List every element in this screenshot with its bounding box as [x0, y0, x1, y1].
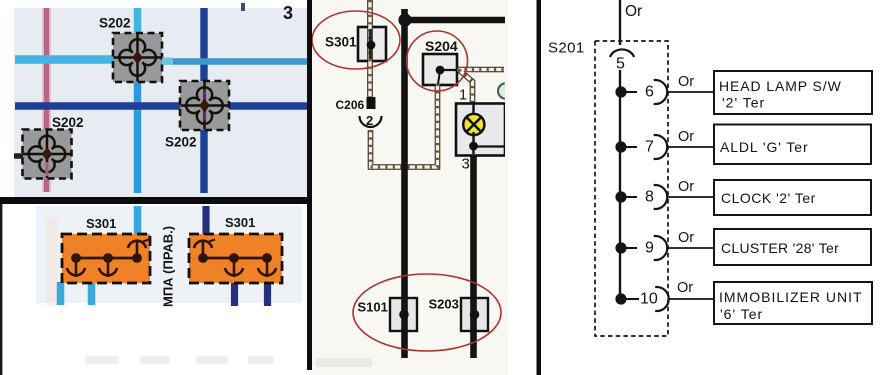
striped wire S204 to lamp and right: [457, 70, 504, 105]
S101 node dot: [399, 310, 409, 320]
faint scan ghost marks: [60, 310, 274, 364]
scan speckle column: [47, 218, 57, 306]
wire cyan stub bottom 1: [57, 282, 65, 305]
lamp unit box: [456, 104, 505, 156]
svg-text:S204: S204: [425, 38, 458, 54]
node 7: [615, 129, 714, 159]
splice S202 lower-left wire stub: [14, 153, 23, 159]
wire navy stub bottom 1: [231, 282, 238, 306]
wire navy stub bottom 2: [264, 282, 271, 306]
wire navy vertical: [200, 8, 207, 193]
splice S202 lower-left: [23, 130, 72, 179]
svg-text:S202: S202: [99, 16, 131, 31]
junction node: [398, 13, 411, 26]
S201 dashed box: [595, 41, 668, 336]
striped wire C206 to S204: [371, 74, 440, 167]
node 10: [615, 280, 714, 311]
node 9: [615, 230, 714, 260]
CLUSTER box: [714, 229, 871, 265]
green circle symbol (clipped): [498, 83, 514, 99]
splice S202 right: [180, 81, 229, 130]
IMMOBILIZER box: [714, 282, 872, 324]
svg-text:S203: S203: [429, 297, 459, 312]
svg-text:Or: Or: [677, 280, 693, 296]
wire blue horizontal right segment: [158, 58, 308, 65]
svg-text:Or: Or: [678, 74, 694, 90]
wire navy horizontal: [15, 102, 308, 110]
HEAD LAMP box: [714, 71, 872, 114]
svg-text:МПА (ПРАВ.): МПА (ПРАВ.): [161, 226, 176, 307]
svg-text:S301: S301: [86, 216, 116, 231]
ALDL box: [714, 125, 871, 165]
red ellipse around S101 S203: [353, 274, 501, 351]
svg-text:S301: S301: [225, 215, 255, 230]
splice S203 box: [461, 298, 488, 331]
wire pink vertical: [42, 8, 51, 192]
separator line between left panels: [0, 197, 312, 204]
middle panel right border / right panel left border: [537, 0, 542, 375]
lamp internal wire bottom + junction: [469, 132, 505, 154]
wire black vertical 1: [401, 9, 408, 358]
striped wire top through S301 to C206: [367, 0, 373, 97]
lamp internal wire top: [472, 104, 474, 117]
splice S301 right (orange): [189, 234, 282, 283]
lamp symbol: [463, 114, 484, 135]
CLOCK box: [714, 180, 871, 215]
svg-text:3: 3: [462, 156, 470, 173]
svg-text:S101: S101: [358, 300, 388, 315]
wire top vertical (to S201): [619, 0, 621, 45]
splice S202 top right cyan stub: [162, 58, 173, 65]
wire cyan vertical: [134, 8, 141, 193]
S301 node dot: [369, 29, 372, 59]
bottom-left panel edge line: [0, 204, 2, 375]
svg-text:CLUSTER '28' Ter: CLUSTER '28' Ter: [721, 240, 839, 256]
svg-text:S202: S202: [165, 135, 197, 150]
wire black horizontal top: [404, 17, 505, 24]
splice S101 box: [390, 298, 417, 331]
wire cyan horizontal: [15, 55, 118, 64]
svg-text:10: 10: [640, 291, 658, 308]
svg-text:C206: C206: [336, 98, 365, 112]
svg-text:Or: Or: [678, 129, 694, 145]
S203 node dot: [470, 310, 480, 320]
svg-text:S201: S201: [548, 40, 585, 57]
splice S301 left (orange): [62, 234, 150, 283]
svg-text:2: 2: [366, 113, 373, 128]
splice S204 box: [423, 54, 457, 85]
svg-text:Or: Or: [678, 230, 694, 246]
svg-text:'6' Ter: '6' Ter: [720, 306, 763, 322]
svg-text:9: 9: [645, 240, 654, 257]
svg-text:'2' Ter: '2' Ter: [722, 95, 765, 111]
svg-text:Or: Or: [625, 3, 642, 20]
wire cyan stub top (left S301): [134, 206, 142, 236]
red ellipse around S301: [312, 11, 400, 69]
bottom smudge: [316, 358, 372, 367]
svg-text:3: 3: [283, 3, 293, 23]
svg-text:7: 7: [645, 139, 654, 156]
wire cyan stub bottom 2: [88, 282, 96, 305]
svg-text:1: 1: [459, 88, 467, 104]
svg-text:IMMOBILIZER UNIT: IMMOBILIZER UNIT: [719, 289, 863, 305]
svg-text:CLOCK '2' Ter: CLOCK '2' Ter: [721, 190, 816, 206]
svg-text:ALDL 'G' Ter: ALDL 'G' Ter: [720, 139, 809, 155]
S204 node dot: [436, 66, 457, 75]
svg-text:5: 5: [616, 56, 625, 73]
svg-text:6: 6: [645, 84, 654, 101]
svg-text:Or: Or: [678, 179, 694, 195]
middle panel left border: [307, 0, 312, 370]
splice S202 top: [113, 33, 162, 82]
bottom-left panel tint: [36, 206, 302, 303]
S201 chain vertical wire: [619, 70, 621, 299]
svg-text:8: 8: [645, 189, 654, 206]
svg-text:S202: S202: [52, 115, 84, 130]
svg-text:HEAD LAMP S/W: HEAD LAMP S/W: [719, 78, 842, 94]
node 6: [615, 74, 714, 104]
connector C206 male terminal: [367, 97, 376, 109]
stray scan tick: [241, 3, 245, 11]
wire navy stub top (right S301): [202, 206, 209, 236]
connector 5 arc: [610, 49, 634, 57]
node 8: [615, 179, 714, 209]
connector C206 pin 2 arc: [360, 116, 382, 127]
splice S301 box (middle panel): [358, 27, 386, 61]
red ellipse around S204: [407, 31, 468, 91]
svg-text:S301: S301: [325, 35, 357, 50]
wire black vertical 2 (lamp to S203): [470, 154, 477, 358]
middle panel background: [313, 0, 509, 375]
